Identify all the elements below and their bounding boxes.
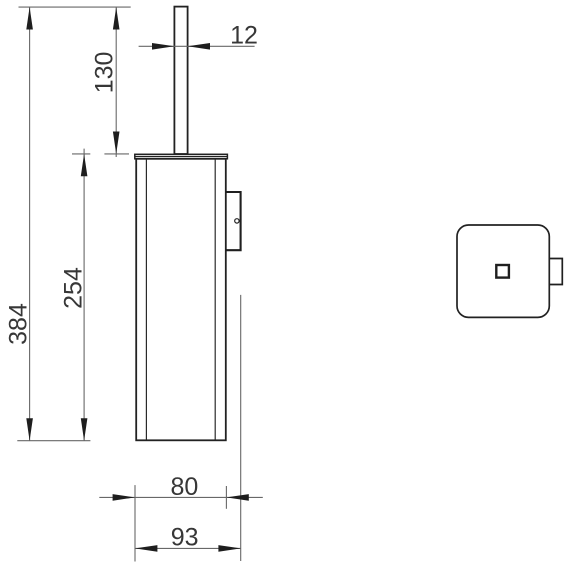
top view rounded body [457,225,549,317]
wall mount bracket [226,192,241,250]
extension line short vertical (body right edge, for 80) [225,486,227,509]
extension line bottom (body bottom level) [17,440,90,442]
arrow 93 right [218,545,240,552]
arrow 384 bottom [26,418,33,440]
top view wall tab [549,259,562,285]
canister lid plate [135,154,228,159]
svg-text:80: 80 [170,473,198,501]
dimension line 12 [139,45,255,47]
svg-text:93: 93 [171,524,199,552]
dimension line 80 [99,496,262,498]
arrow 130 bottom [113,132,120,154]
arrow 254 bottom [81,418,88,440]
lid inner line [135,156,228,158]
body inner left line [145,159,147,440]
arrow 130 top [113,7,120,29]
dimension line 93 [135,547,241,549]
bracket screw hole [235,219,239,223]
extension line at lid top, left segment (254 top) [72,153,90,155]
dimension line 254 [83,149,85,441]
extension line top (handle top level) [19,6,131,8]
canister body outline [136,159,226,441]
arrow 12 right [188,43,210,50]
arrow 384 top [26,7,33,29]
svg-text:130: 130 [91,52,119,94]
dimension line 384 [29,7,31,441]
extension line at lid top, right segment (130 bottom) [104,153,129,155]
extension line left vertical (body left edge, for 80 and 93) [134,485,136,561]
arrow 80 right [226,494,248,501]
arrow 80 left [113,494,135,501]
svg-text:12: 12 [230,22,258,50]
dimension line 130 [115,7,117,157]
arrow 254 top [81,154,88,176]
extension line long vertical (bracket right edge, for 93) [240,295,242,561]
arrow 93 left [135,545,157,552]
svg-text:254: 254 [59,267,87,309]
top view center square hole [496,265,509,278]
svg-text:384: 384 [4,303,32,345]
brush handle (front view stem) [174,7,187,154]
body inner right line [214,159,216,440]
arrow 12 left [152,43,174,50]
